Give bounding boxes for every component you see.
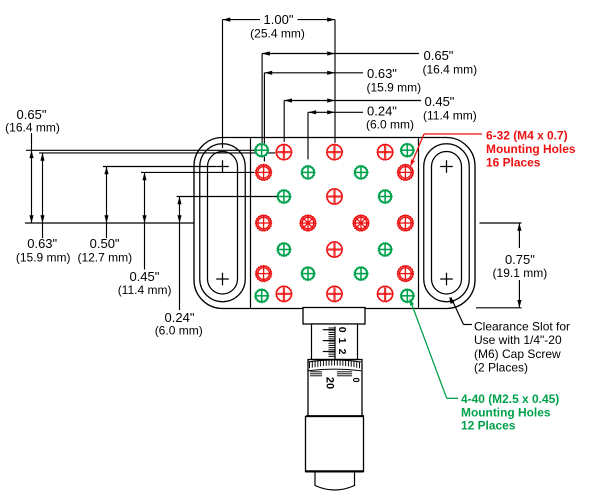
svg-text:(25.4 mm): (25.4 mm) <box>250 27 305 41</box>
svg-text:12 Places: 12 Places <box>461 418 516 432</box>
svg-text:(11.4 mm): (11.4 mm) <box>423 108 477 122</box>
svg-text:(15.9 mm): (15.9 mm) <box>16 250 71 264</box>
svg-text:Clearance Slot for: Clearance Slot for <box>474 320 570 334</box>
svg-text:0.63": 0.63" <box>27 236 57 251</box>
svg-text:1: 1 <box>336 338 348 344</box>
svg-text:1.00": 1.00" <box>264 12 294 27</box>
svg-text:(11.4 mm): (11.4 mm) <box>118 283 172 297</box>
svg-text:0.45": 0.45" <box>425 94 455 109</box>
svg-text:(16.4 mm): (16.4 mm) <box>5 121 60 135</box>
svg-text:6-32 (M4 x 0.7): 6-32 (M4 x 0.7) <box>486 128 568 142</box>
svg-text:0.24": 0.24" <box>367 104 397 119</box>
svg-text:(M6) Cap Screw: (M6) Cap Screw <box>474 347 561 361</box>
svg-text:2: 2 <box>336 349 348 355</box>
svg-text:(15.9 mm): (15.9 mm) <box>367 81 422 95</box>
svg-text:0.50": 0.50" <box>90 236 120 251</box>
svg-text:Mounting Holes: Mounting Holes <box>486 142 576 156</box>
svg-text:(6.0 mm): (6.0 mm) <box>155 324 203 338</box>
svg-text:0.63": 0.63" <box>367 66 397 81</box>
svg-text:0.75": 0.75" <box>505 252 535 267</box>
svg-text:20: 20 <box>324 377 336 389</box>
svg-text:(19.1 mm): (19.1 mm) <box>493 266 548 280</box>
svg-text:Use with 1/4"-20: Use with 1/4"-20 <box>474 333 562 347</box>
svg-text:0.65": 0.65" <box>424 48 454 63</box>
svg-text:4-40 (M2.5 x 0.45): 4-40 (M2.5 x 0.45) <box>461 392 559 406</box>
svg-text:(16.4 mm): (16.4 mm) <box>423 63 478 77</box>
svg-text:0.65": 0.65" <box>17 107 47 122</box>
svg-text:(6.0 mm): (6.0 mm) <box>366 118 414 132</box>
svg-text:16 Places: 16 Places <box>486 156 541 170</box>
svg-text:0: 0 <box>336 327 348 333</box>
svg-text:0.45": 0.45" <box>129 269 159 284</box>
svg-text:(12.7 mm): (12.7 mm) <box>77 250 132 264</box>
svg-text:(2 Places): (2 Places) <box>474 361 528 375</box>
svg-text:0: 0 <box>351 377 361 382</box>
